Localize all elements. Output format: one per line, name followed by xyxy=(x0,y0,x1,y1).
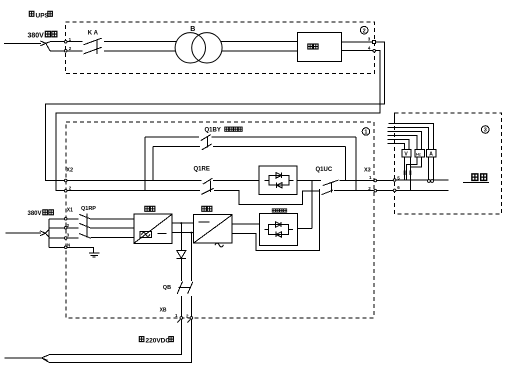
wire: terminal 4 loop down-left to X2-2 xyxy=(56,51,380,191)
svg-text:Hz: Hz xyxy=(416,151,421,156)
wire: incoming feeder line (top left) xyxy=(4,42,41,44)
wire: incoming feeder (bottom left) xyxy=(6,232,41,234)
regulator unit box (box2) xyxy=(298,33,342,62)
terminal XB-1 xyxy=(180,317,183,320)
label: 380V input (top) xyxy=(28,31,57,39)
transformer B (two overlapping circles) xyxy=(175,33,222,63)
wire: QRP to rectifier box (3 phases) xyxy=(91,219,134,238)
switch Q1UC (2-pole output) xyxy=(322,180,339,195)
wire: X3 terminals to box3 terminals 5,6 xyxy=(377,181,393,191)
arrow: feeder arrowhead pointing right xyxy=(40,231,46,236)
svg-text:X2: X2 xyxy=(66,168,73,174)
svg-text:380V: 380V xyxy=(28,211,42,217)
switch Q1RE (2-pole rectifier input) xyxy=(202,178,214,194)
label bypass note (CJK) xyxy=(225,127,242,131)
wire: battery dropper 2 from DC- xyxy=(190,233,192,281)
arrow tick into XB-2 xyxy=(187,319,190,322)
ammeter A xyxy=(426,149,436,157)
switch KA (2-pole) xyxy=(84,38,102,54)
wire: fan-out bus to X1 terminals xyxy=(46,219,65,248)
arrow: DC feeder arrowhead pointing left xyxy=(42,356,48,361)
arrow: feeder arrowhead pointing right xyxy=(40,41,46,46)
wire: QUC pole1 out to terminal X3-1 xyxy=(339,180,373,182)
wire: meter loop 5 to V right xyxy=(387,140,409,150)
svg-text:Q1RE: Q1RE xyxy=(194,167,210,173)
terminal 6 (box3) xyxy=(393,189,396,192)
switch QB (2-pole battery) xyxy=(177,282,193,294)
terminal 1 (box2 input) xyxy=(64,40,67,43)
wire: right bypass riser down to output wire 2 xyxy=(355,137,357,191)
wire: terminal 3 loop down-left to X2-1 xyxy=(45,42,384,181)
rectifier unit box xyxy=(134,214,172,243)
terminal 2 (box2 input) xyxy=(64,50,67,53)
wire: riser from X2-2 wire up to bypass upper wire xyxy=(144,137,146,191)
terminal XB-2 xyxy=(190,317,193,320)
wire: KA to transformer xyxy=(104,42,177,51)
dashed enclosure box 2 (input cabinet) xyxy=(66,22,375,74)
wire: X1 terminals to QRP xyxy=(67,219,78,238)
wire: Q1RE pole2 hop under static box to QUC pole2 xyxy=(214,191,320,205)
wire: Q1RE pole1 to static bypass box xyxy=(213,180,259,182)
wire: V left lead down to bus 5 xyxy=(404,157,406,180)
dashed enclosure box 3 (distribution) xyxy=(395,113,502,214)
terminal X3-2 xyxy=(374,189,377,192)
label: 380V input (bottom) xyxy=(28,210,54,217)
wire: load bus 6 xyxy=(396,189,448,191)
svg-text:XB: XB xyxy=(160,308,167,314)
circled number 1 xyxy=(362,128,370,136)
fuse on V left lead xyxy=(404,171,406,176)
svg-text:Q1UC: Q1UC xyxy=(316,167,333,173)
wire: load bus 5 xyxy=(396,179,448,181)
wire: DC link top xyxy=(172,222,193,224)
svg-text:A: A xyxy=(429,152,433,158)
svg-text:Q1RP: Q1RP xyxy=(81,206,96,212)
wire: Q1BY pole2 out to riser at right xyxy=(213,145,345,147)
label static switch (CJK) xyxy=(272,209,287,212)
terminal X1-1 xyxy=(64,218,67,221)
label rectifier (CJK) xyxy=(145,206,155,211)
svg-text:380V: 380V xyxy=(28,33,45,40)
terminal 3 (square) xyxy=(373,40,376,43)
wire: bypass upper wire to Q1BY pole 1 xyxy=(145,136,199,138)
label: to-UPS-cabinet text xyxy=(29,11,52,19)
wire: unit box to terminals 3,4 xyxy=(342,42,373,51)
wire: A right lead down to CT xyxy=(432,157,434,179)
junction dot DC+ xyxy=(180,222,182,224)
arrow tick into XB-1 xyxy=(177,319,180,322)
svg-text:X3: X3 xyxy=(364,168,371,174)
wire: inverter output 2 loop under to QUC pole2 riser xyxy=(232,189,319,251)
wire: terminals to switch KA xyxy=(67,42,82,51)
wire: XB-2 down and left to DC feeder xyxy=(42,319,192,362)
svg-text:KA: KA xyxy=(88,30,100,36)
terminal X1-3 xyxy=(64,237,67,240)
circled number 2 xyxy=(360,26,368,34)
CT circles on bus 5 xyxy=(428,180,434,183)
svg-text:3: 3 xyxy=(484,128,487,134)
ground symbol xyxy=(89,253,100,257)
wire: battery dropper 1 from DC+ xyxy=(180,223,182,250)
wire: DC link bottom xyxy=(172,232,193,234)
wire: meter loop 4 to Hz left xyxy=(387,136,417,150)
wire: connector from box3 top edge down to meter wire 1 xyxy=(393,113,395,123)
label: to 220VDC panel xyxy=(139,337,173,345)
frequency meter Hz xyxy=(415,149,425,157)
wire: static box S1 output to QUC pole1 xyxy=(297,179,321,181)
wire: riser from X2-1 wire up to bypass lower wire xyxy=(152,146,154,180)
svg-text:N: N xyxy=(67,242,70,247)
wire: right bypass riser down to output wire 1 xyxy=(344,146,346,180)
svg-text:2: 2 xyxy=(363,28,366,34)
inverter unit box xyxy=(194,215,233,247)
terminal X2-2 xyxy=(64,189,67,192)
wire: X2-1 to switch Q1RE pole 1 xyxy=(67,180,201,182)
svg-text:QB: QB xyxy=(163,285,171,291)
circled number 3 xyxy=(482,126,490,134)
wire: meter loop 1 to A right xyxy=(389,124,434,150)
wire: QB poles to XB terminals xyxy=(181,296,191,316)
terminal X1-N xyxy=(64,246,67,249)
diode on battery dropper 1 xyxy=(177,250,186,258)
dashed enclosure box 1 (UPS main cabinet) xyxy=(66,122,374,318)
wire: meter loop 3 to Hz right xyxy=(387,132,421,150)
wire: riser from inverter static box S2 output up to QUC pole1 wire xyxy=(311,180,313,228)
wire: X1-N to ground xyxy=(67,247,94,253)
label: load (CJK) with underline xyxy=(463,174,489,183)
svg-text:220VDC: 220VDC xyxy=(146,337,171,344)
svg-text:B: B xyxy=(190,26,195,33)
svg-text:X1: X1 xyxy=(67,207,73,213)
wire: DC feeder line out xyxy=(5,357,42,359)
svg-text:Q1BY: Q1BY xyxy=(205,128,221,134)
fuse on V right lead xyxy=(410,171,412,176)
junction dot DC- xyxy=(190,232,192,234)
wire: meter loop 6 to V left xyxy=(387,144,404,150)
wire: meter loop 2 to A left xyxy=(387,128,428,150)
terminal X1-2 xyxy=(64,227,67,230)
wire: QUC pole2 out to terminal X3-2 xyxy=(334,190,374,192)
wire: bypass lower wire to Q1BY pole 2 xyxy=(153,145,200,147)
label inverter (CJK) xyxy=(202,206,212,211)
wire: fan-out to terminal pair xyxy=(46,42,64,51)
wire: inverter output 1 to static box S2 xyxy=(232,223,260,225)
wire: Hz left lead jog down to bus 5 xyxy=(407,157,417,180)
terminal 4 xyxy=(373,49,376,52)
terminal X3-1 xyxy=(374,179,377,182)
wire: transformer to regulator box xyxy=(221,42,298,51)
wire: V right lead down to bus 6 xyxy=(409,157,411,190)
wire: diode to QB pole 1 xyxy=(180,258,182,280)
terminal X2-1 xyxy=(64,179,67,182)
static bypass switch box S1 xyxy=(259,166,297,195)
voltmeter V xyxy=(402,149,411,157)
wire: X2-2 to switch Q1RE pole 2 xyxy=(67,190,200,192)
svg-text:1: 1 xyxy=(364,130,367,136)
wire: Hz right lead jog to V right lead xyxy=(410,157,421,167)
switch Q1RP (3-pole rectifier input) xyxy=(79,213,91,238)
wire: XB-1 down and left to DC feeder xyxy=(42,319,182,358)
switch Q1BY (2-pole maintenance bypass) xyxy=(201,135,212,150)
wire: A left lead down to CT xyxy=(428,157,430,179)
terminal 5 (box3) xyxy=(393,179,396,182)
wire: Q1BY pole1 out to riser at right xyxy=(212,136,356,138)
inverter static switch box S2 xyxy=(260,214,298,246)
wire: S2 output to riser xyxy=(298,228,312,230)
